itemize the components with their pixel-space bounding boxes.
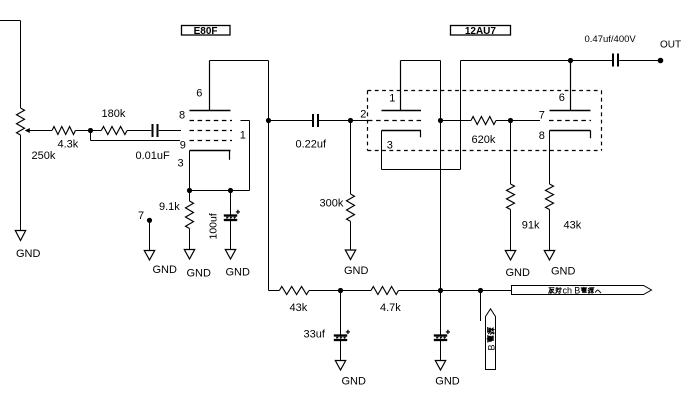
svg-text:B: B — [574, 285, 580, 295]
svg-text:250k: 250k — [32, 150, 56, 162]
svg-text:3: 3 — [387, 139, 393, 151]
svg-text:GND: GND — [16, 248, 41, 260]
svg-text:7: 7 — [138, 210, 144, 222]
svg-text:43k: 43k — [290, 302, 308, 314]
svg-text:43k: 43k — [564, 220, 582, 232]
svg-text:1: 1 — [389, 93, 395, 105]
svg-text:GND: GND — [551, 265, 576, 277]
svg-text:7: 7 — [539, 109, 545, 121]
svg-text:GND: GND — [226, 267, 251, 279]
svg-text:8: 8 — [179, 109, 185, 121]
svg-text:GND: GND — [187, 268, 212, 280]
svg-text:4.7k: 4.7k — [380, 302, 401, 314]
svg-text:OUT: OUT — [660, 39, 681, 50]
svg-text:GND: GND — [344, 265, 369, 277]
svg-text:ch: ch — [563, 285, 573, 295]
svg-text:620k: 620k — [472, 134, 496, 146]
svg-text:100uf: 100uf — [208, 213, 220, 239]
svg-text:6: 6 — [196, 87, 202, 99]
svg-text:GND: GND — [153, 264, 178, 276]
svg-text:91k: 91k — [522, 220, 540, 232]
svg-text:2: 2 — [360, 108, 366, 120]
svg-text:GND: GND — [506, 267, 531, 279]
svg-text:180k: 180k — [102, 108, 126, 120]
svg-text:0.22uf: 0.22uf — [296, 139, 328, 151]
svg-text:3: 3 — [178, 157, 184, 169]
svg-text:1: 1 — [240, 129, 246, 141]
svg-text:12AU7: 12AU7 — [465, 26, 497, 37]
svg-text:E80F: E80F — [194, 26, 218, 37]
svg-text:6: 6 — [559, 92, 565, 104]
svg-text:GND: GND — [435, 376, 460, 388]
svg-text:33uf: 33uf — [304, 329, 326, 341]
svg-text:8: 8 — [539, 130, 545, 142]
svg-text:GND: GND — [342, 376, 367, 388]
svg-text:0.47uf/400V: 0.47uf/400V — [585, 34, 637, 45]
svg-text:B: B — [486, 344, 496, 350]
svg-text:0.01uF: 0.01uF — [136, 150, 171, 162]
svg-text:9.1k: 9.1k — [159, 201, 180, 213]
svg-text:9: 9 — [180, 139, 186, 151]
svg-text:4.3k: 4.3k — [58, 139, 79, 151]
svg-text:300k: 300k — [320, 198, 344, 210]
